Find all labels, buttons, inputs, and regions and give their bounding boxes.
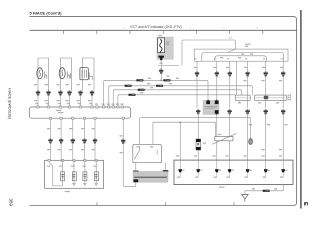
ECM pin connector (black) at x=198.2 <box>197 169 200 172</box>
label <box>261 149 264 150</box>
label <box>220 57 223 58</box>
wire <box>73 160 75 172</box>
oval connectors on fan wires <box>136 79 143 81</box>
wire L4 y=94.8 <box>118 95 235 106</box>
label <box>194 155 197 156</box>
label <box>252 188 255 189</box>
wire L3 y=89.8 <box>113 90 242 106</box>
label <box>166 42 169 43</box>
svg-text:4: 4 <box>124 28 126 30</box>
fan of horizontal wires <box>104 80 253 106</box>
label <box>243 155 246 156</box>
black connectors inside <box>179 160 285 177</box>
ECM pin connector (black) at x=265.7 <box>264 169 267 172</box>
1J loop wire <box>158 40 236 65</box>
connector (white T) at x=247.6 y=72.4 <box>245 71 249 76</box>
label <box>225 155 228 156</box>
wire <box>81 70 83 78</box>
connector (white T) at x=72.8 y=139.4 <box>71 138 75 143</box>
noise filter connector on wire 198 <box>196 139 201 150</box>
connector (white T) at x=50.5 y=139.4 <box>48 138 52 143</box>
grid ticks on top line <box>64 30 263 34</box>
label <box>137 146 140 147</box>
pin at x=50.5 y=118.2 <box>49 117 51 119</box>
connector (white T) at x=92 y=91.5 <box>90 90 94 95</box>
connector (white T) at x=198.2 y=110.3 <box>196 109 200 114</box>
label <box>219 187 225 188</box>
component 3: transmission control switch (bars icon) <box>80 58 94 91</box>
svg-text:3: 3 <box>90 28 92 30</box>
wire <box>95 172 97 184</box>
label <box>47 128 50 129</box>
label <box>67 103 70 104</box>
label <box>194 67 197 68</box>
connector (white T) at x=95 y=139.4 <box>93 138 97 143</box>
wire <box>205 107 216 109</box>
label <box>279 149 282 150</box>
stubs from indicator box bottom down to connector row 1 <box>197 61 283 95</box>
wire <box>265 160 267 169</box>
wire <box>212 134 236 145</box>
label <box>78 103 81 104</box>
pin at x=96.2 y=160.3 <box>95 159 97 161</box>
label <box>47 149 50 150</box>
wire <box>179 160 181 169</box>
pin at x=49 y=160.3 <box>48 159 50 161</box>
label <box>245 44 251 45</box>
small oval connector at bottom of that wire <box>249 138 253 144</box>
wire <box>179 172 181 177</box>
comb symbol right of junction boxes <box>288 94 290 101</box>
label <box>274 188 277 189</box>
indicator bulb 4 <box>94 160 98 186</box>
label <box>262 155 265 156</box>
pin at x=84.9 y=160.3 <box>84 159 86 161</box>
bullet connector at x=159.7 y=85.8 <box>156 85 163 87</box>
wire <box>165 163 167 171</box>
svg-text:1J: 1J <box>229 36 232 40</box>
connector (white T) at x=216.8 y=72.4 <box>215 71 219 76</box>
label <box>284 124 287 125</box>
indicator bulb 1 <box>49 160 65 186</box>
white connector on fuse wire <box>159 69 163 74</box>
wire <box>83 70 85 78</box>
wire <box>197 172 199 177</box>
svg-text:6: 6 <box>190 28 192 30</box>
black connectors above gray J/B <box>133 171 139 173</box>
wire <box>134 176 167 178</box>
svg-text:8: 8 <box>256 28 258 30</box>
tiny wire labels <box>34 84 37 85</box>
label <box>167 76 170 77</box>
connector (white T) at x=229.8 y=72.4 <box>228 71 232 76</box>
grid ticks on bottom rule <box>97 202 234 205</box>
svg-text:E: E <box>302 202 308 206</box>
label <box>160 63 163 64</box>
wire <box>84 160 86 172</box>
connector (white T) at x=84.5 y=139.4 <box>82 138 86 143</box>
connector (white T) at x=61.1 y=139.4 <box>59 138 63 143</box>
long junction connector box <box>30 107 131 118</box>
wire <box>134 151 139 160</box>
junction block (gray) with GAUGE fuse <box>157 37 173 59</box>
label <box>213 155 216 156</box>
connector (white T) at x=123.2 y=139.8 <box>121 139 125 144</box>
engine control module (ECM) box <box>174 160 293 184</box>
connector (white T) at x=229.6 y=110.3 <box>227 109 231 114</box>
bullet connector at x=132.1 y=94.8 <box>129 94 136 96</box>
wire <box>86 70 88 78</box>
connector (white T) at x=265.7 y=110.3 <box>264 109 268 114</box>
wire <box>239 101 241 104</box>
wires from junction box to indicator light box <box>51 119 96 138</box>
wire y117.7 from switch pin1 up and right to x250.6 down to oval <box>140 118 251 145</box>
wire <box>265 172 267 177</box>
svg-text:HIACE (EWD622E): HIACE (EWD622E) <box>8 88 12 119</box>
vertical wires row2 down to ECU box <box>198 114 283 160</box>
connector (white T) at x=60.5 y=91.5 <box>58 90 62 95</box>
svg-text:xxxx: xxxx <box>156 150 159 156</box>
wire <box>236 97 250 99</box>
top pins <box>37 106 124 108</box>
wire from junction-box pin 123.2 down to connector and loop to J/B <box>122 119 124 138</box>
label <box>159 35 162 36</box>
bullet connector at x=266.3 y=190.8 <box>263 190 270 192</box>
wire <box>197 160 199 169</box>
wire <box>160 60 162 68</box>
label <box>120 135 123 136</box>
component 2: pattern select switch (middle oval gauge) <box>59 58 71 91</box>
wire <box>244 199 246 202</box>
label <box>58 103 61 104</box>
label <box>95 104 98 105</box>
ground symbol <box>242 195 249 200</box>
wire <box>84 172 86 184</box>
label <box>203 143 206 144</box>
pin at x=38 y=107 <box>37 106 39 108</box>
connector (white T) at x=247.6 y=110.3 <box>245 109 249 114</box>
label <box>238 102 241 103</box>
ECM pin connector (black) at x=229.6 <box>228 169 231 172</box>
label <box>34 100 37 101</box>
label <box>56 110 62 111</box>
label <box>35 103 38 104</box>
bottom pins <box>49 117 124 119</box>
label <box>267 124 270 125</box>
svg-text:5 HIACE (Cont’d): 5 HIACE (Cont’d) <box>30 10 63 15</box>
label <box>249 124 252 125</box>
label <box>176 155 179 156</box>
ground wire path <box>245 185 283 195</box>
label <box>47 166 50 167</box>
label <box>46 103 49 104</box>
wire <box>73 172 75 184</box>
label <box>241 53 244 54</box>
wire <box>247 160 249 169</box>
ECM pin connector (black) at x=180.2 <box>179 169 182 172</box>
connector (white T) at x=197 y=72.4 <box>195 71 199 76</box>
svg-text:359: 359 <box>9 199 14 207</box>
wires from connectors to junction box <box>38 96 92 106</box>
diode / junction block (gray, center) <box>203 100 219 114</box>
label <box>218 134 221 135</box>
diagram frame (top rule, right edge, bottom rule; open at left) <box>30 17 297 206</box>
svg-text:7: 7 <box>223 28 225 30</box>
connector (white T) at x=283.2 y=72.4 <box>281 71 285 76</box>
component: O/D main switch (left oval gauge) <box>37 58 49 91</box>
wire y122.2 from switch pin2 right to 229.6, with branch down at 180.2 <box>153 122 216 144</box>
label <box>147 83 150 84</box>
wire <box>216 172 218 177</box>
label <box>89 103 92 104</box>
vertical wires center, row1 to row2 <box>197 77 283 109</box>
label <box>150 87 153 88</box>
wire <box>229 172 231 177</box>
right page border vertical line <box>300 10 302 209</box>
wire <box>255 97 286 99</box>
flat junction connector boxes J1/J2 <box>235 95 250 101</box>
junction block (gray) <box>133 172 168 183</box>
A/T fluid temperature sensor <box>215 137 233 141</box>
A/T indicator light assembly box <box>45 160 104 188</box>
bullet connector at x=128.2 y=85.8 <box>125 85 132 87</box>
grid line (inner top bus line) <box>30 29 297 31</box>
indicator bulb 2 <box>72 160 76 186</box>
wire from switch box bottom <box>135 163 137 171</box>
connector (white T) at x=80.5 y=91.5 <box>78 90 82 95</box>
wire <box>160 74 162 80</box>
wire <box>62 160 64 172</box>
bullet connector at x=167 y=80.3 <box>163 79 170 81</box>
pin at x=74.0 y=160.3 <box>73 159 75 161</box>
wire <box>179 122 181 160</box>
label <box>243 80 246 81</box>
pin at x=62.6 y=160.3 <box>62 159 64 161</box>
connector (white T) at x=283.2 y=110.3 <box>281 109 285 114</box>
connector (white T) at x=69.5 y=91.5 <box>67 90 71 95</box>
wire <box>282 172 284 177</box>
wire <box>62 172 64 181</box>
svg-text:2: 2 <box>57 28 59 30</box>
ECM pin connector (black) at x=283.2 <box>282 169 285 172</box>
connector (white T) at x=265.7 y=72.4 <box>264 71 268 76</box>
indicator bulb 3 <box>83 160 87 186</box>
park/neutral position switch box <box>133 144 162 162</box>
bullet connector at x=141.3 y=89.8 <box>138 89 145 91</box>
combination meter / A/T indicator nested boxes <box>194 49 288 61</box>
wire <box>247 172 249 177</box>
wire <box>139 146 141 150</box>
connector row under components <box>36 90 40 95</box>
wire L2 y=85.8 <box>109 86 253 106</box>
label <box>65 191 71 192</box>
ECM pin connector (black) at x=247.6 <box>246 169 249 172</box>
label <box>148 78 151 79</box>
wire <box>229 160 231 169</box>
label <box>279 155 282 156</box>
wire <box>205 105 218 107</box>
black connector at fuse bottom <box>158 56 164 58</box>
wire L1 y=80.3 <box>104 80 208 106</box>
connector (white T) at x=48.5 y=91.5 <box>46 90 50 95</box>
wire <box>282 160 284 169</box>
wire <box>216 160 218 169</box>
ECM pin connector (black) at x=216.8 <box>215 169 218 172</box>
pin at x=97 y=107 <box>96 106 98 108</box>
wire <box>95 160 97 172</box>
label <box>177 177 180 178</box>
